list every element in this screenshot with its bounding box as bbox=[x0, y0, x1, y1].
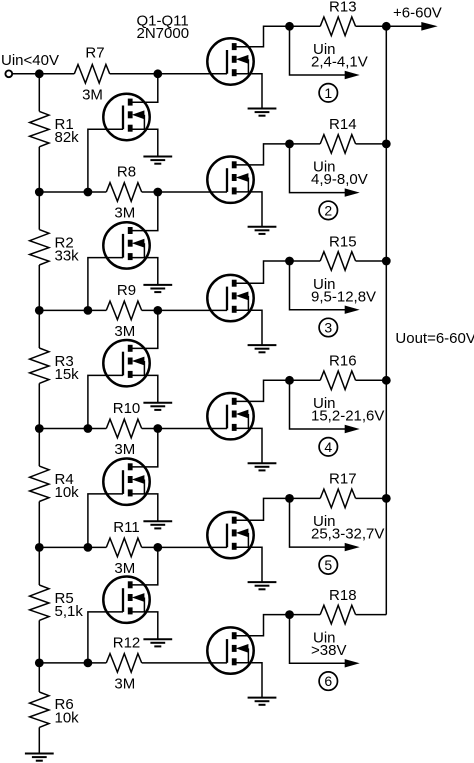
svg-text:3M: 3M bbox=[82, 87, 103, 104]
svg-text:3M: 3M bbox=[114, 205, 135, 222]
svg-text:6: 6 bbox=[324, 673, 332, 689]
svg-text:R11: R11 bbox=[113, 519, 139, 536]
svg-text:R18: R18 bbox=[329, 587, 357, 604]
svg-text:82k: 82k bbox=[55, 129, 80, 146]
svg-text:Uout=6-60V: Uout=6-60V bbox=[395, 330, 474, 347]
svg-text:3: 3 bbox=[324, 320, 332, 336]
svg-text:R10: R10 bbox=[113, 400, 141, 417]
svg-text:R9: R9 bbox=[117, 282, 136, 299]
svg-text:3M: 3M bbox=[114, 676, 135, 693]
svg-text:3M: 3M bbox=[114, 323, 135, 340]
svg-text:R8: R8 bbox=[117, 164, 136, 181]
svg-text:10k: 10k bbox=[55, 484, 80, 501]
svg-text:R17: R17 bbox=[329, 471, 357, 488]
svg-text:15k: 15k bbox=[55, 366, 80, 383]
svg-text:Uin<40V: Uin<40V bbox=[1, 52, 59, 69]
svg-text:4: 4 bbox=[324, 439, 332, 455]
svg-text:9,5-12,8V: 9,5-12,8V bbox=[311, 288, 376, 305]
svg-text:10k: 10k bbox=[55, 710, 80, 727]
svg-text:5: 5 bbox=[324, 557, 332, 573]
svg-text:R13: R13 bbox=[329, 0, 357, 16]
svg-text:3M: 3M bbox=[114, 560, 135, 577]
svg-text:+6-60V: +6-60V bbox=[393, 4, 442, 21]
svg-text:R15: R15 bbox=[329, 233, 357, 250]
svg-text:1: 1 bbox=[324, 85, 332, 101]
svg-text:2,4-4,1V: 2,4-4,1V bbox=[311, 54, 368, 71]
svg-text:>38V: >38V bbox=[311, 642, 346, 659]
svg-text:2: 2 bbox=[324, 202, 332, 218]
svg-text:33k: 33k bbox=[55, 247, 80, 264]
svg-text:R16: R16 bbox=[329, 353, 357, 370]
svg-text:25,3-32,7V: 25,3-32,7V bbox=[311, 526, 384, 543]
svg-text:R14: R14 bbox=[329, 116, 357, 133]
svg-text:2N7000: 2N7000 bbox=[137, 25, 190, 42]
svg-text:4,9-8,0V: 4,9-8,0V bbox=[311, 171, 368, 188]
svg-text:5,1k: 5,1k bbox=[55, 603, 84, 620]
svg-text:R7: R7 bbox=[85, 44, 104, 61]
svg-text:15,2-21,6V: 15,2-21,6V bbox=[311, 408, 384, 425]
svg-text:3M: 3M bbox=[114, 441, 135, 458]
svg-text:R12: R12 bbox=[113, 634, 141, 651]
